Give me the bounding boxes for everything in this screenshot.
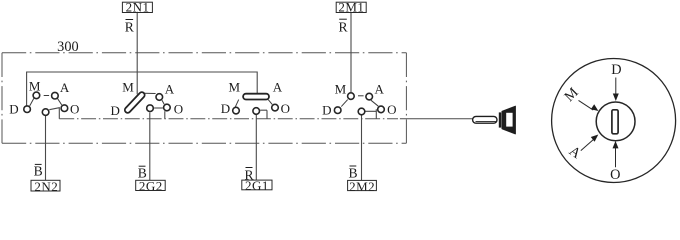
svg-text:R: R bbox=[125, 20, 135, 35]
svg-text:300: 300 bbox=[57, 39, 78, 55]
svg-text:M: M bbox=[335, 82, 347, 97]
svg-text:D: D bbox=[221, 101, 230, 116]
svg-text:O: O bbox=[610, 167, 620, 183]
svg-text:O: O bbox=[174, 101, 183, 116]
svg-text:D: D bbox=[322, 103, 331, 118]
svg-text:2G2: 2G2 bbox=[139, 179, 163, 194]
svg-text:B: B bbox=[34, 164, 43, 179]
svg-text:A: A bbox=[165, 82, 175, 97]
svg-text:O: O bbox=[70, 101, 79, 116]
svg-text:M: M bbox=[122, 80, 134, 95]
svg-text:R: R bbox=[338, 20, 348, 35]
svg-text:2M2: 2M2 bbox=[349, 179, 375, 194]
svg-text:O: O bbox=[281, 101, 290, 116]
svg-text:O: O bbox=[387, 102, 396, 117]
svg-text:M: M bbox=[29, 78, 41, 93]
svg-text:A: A bbox=[273, 80, 283, 95]
svg-text:D: D bbox=[9, 101, 18, 116]
svg-text:D: D bbox=[611, 62, 621, 78]
svg-text:A: A bbox=[375, 82, 385, 97]
svg-text:A: A bbox=[60, 80, 70, 95]
svg-text:M: M bbox=[229, 80, 241, 95]
svg-text:D: D bbox=[111, 103, 120, 118]
svg-text:2N2: 2N2 bbox=[34, 179, 58, 194]
